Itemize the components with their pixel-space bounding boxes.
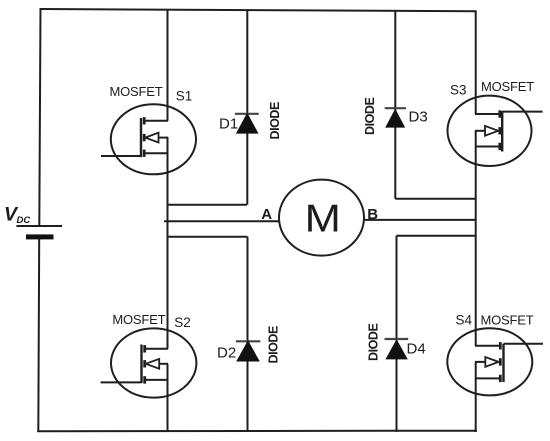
svg-text:DIODE: DIODE (367, 324, 381, 361)
svg-text:D4: D4 (407, 341, 426, 358)
svg-text:B: B (367, 206, 378, 223)
svg-text:MOSFET: MOSFET (481, 313, 534, 328)
svg-text:S2: S2 (174, 315, 191, 330)
svg-text:DIODE: DIODE (268, 102, 282, 139)
svg-text:D1: D1 (219, 116, 238, 133)
svg-text:MOSFET: MOSFET (112, 312, 165, 327)
svg-text:S1: S1 (176, 89, 193, 104)
svg-text:DC: DC (17, 215, 31, 226)
svg-text:D2: D2 (217, 345, 236, 362)
svg-text:MOSFET: MOSFET (110, 84, 163, 99)
svg-text:MOSFET: MOSFET (481, 79, 534, 94)
svg-text:A: A (261, 206, 272, 223)
svg-text:DIODE: DIODE (267, 326, 281, 363)
svg-text:S3: S3 (450, 83, 467, 98)
svg-text:DIODE: DIODE (363, 98, 377, 135)
svg-text:D3: D3 (409, 108, 428, 125)
svg-text:S4: S4 (456, 313, 473, 328)
svg-text:M: M (305, 197, 341, 240)
